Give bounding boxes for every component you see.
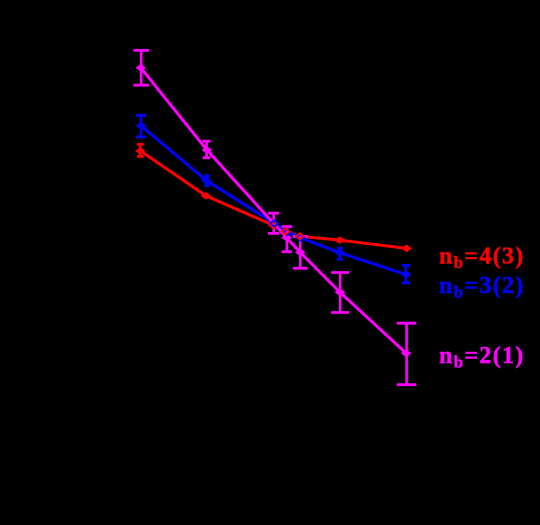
magenta diamond marker 5 (335, 288, 346, 296)
magenta error bar point 6 (331, 273, 349, 313)
svg-text:nb=2(1): nb=2(1) (439, 343, 525, 372)
svg-text:nb=3(2): nb=3(2) (439, 273, 525, 302)
blue error bar point 6 (337, 248, 343, 259)
magenta diamond marker 6 (401, 349, 412, 357)
magenta diamond marker 3 (281, 234, 292, 242)
blue filled diamond marker 4 (401, 271, 412, 279)
magenta error bar point 3 (268, 213, 279, 233)
magenta error bar point 2 (203, 141, 211, 158)
blue error bar point 2 (204, 176, 209, 186)
svg-text:nb=4(3): nb=4(3) (439, 243, 525, 272)
blue error bar point 7 (402, 265, 410, 283)
blue open diamond marker x4 (283, 229, 291, 235)
red open diamond marker x5 (296, 233, 304, 239)
magenta error bar point 7 (397, 323, 417, 385)
blue filled diamond marker 2 (201, 176, 212, 184)
magenta series line n_b=2(1) (141, 68, 406, 354)
blue open diamond marker x3 (270, 220, 278, 226)
red filled diamond marker 4 (401, 245, 412, 253)
red open diamond marker x4 (282, 228, 290, 234)
red open diamond marker at crossing x3 (269, 222, 277, 228)
magenta error bar point 5 (293, 237, 308, 269)
magenta error bar point 1 (133, 50, 149, 85)
blue open diamond marker x5 (297, 235, 305, 241)
magenta diamond marker 2 (202, 146, 213, 154)
blue series line n_b=3(2) (141, 126, 406, 275)
magenta diamond marker 4 (295, 249, 306, 257)
blue filled diamond marker 3 (334, 249, 345, 257)
red error bar point 1 (137, 144, 144, 156)
blue error bar point 1 (136, 115, 146, 137)
red filled diamond marker 2 (201, 192, 212, 200)
red filled diamond marker 3 (335, 236, 346, 244)
blue filled diamond marker 1 (136, 122, 147, 130)
red series line n_b=4(3) (140, 151, 406, 249)
magenta error bar point 4 (282, 227, 292, 252)
magenta diamond marker 1 (136, 64, 147, 72)
red filled diamond marker 1 (135, 147, 146, 155)
